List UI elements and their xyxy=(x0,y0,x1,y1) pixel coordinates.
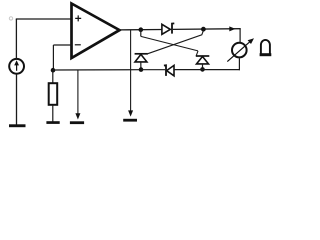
ground G1 xyxy=(9,124,26,127)
wire + input horizontal xyxy=(16,18,72,20)
wire meter bottom to bus corner xyxy=(238,58,240,70)
diagonal wire node C to D3 cathode xyxy=(148,31,204,54)
scan smudge near + input corner xyxy=(9,17,12,20)
wire from current source up to op-amp + input xyxy=(15,19,17,59)
wire top rail after D1 xyxy=(173,28,241,31)
node B (output node) xyxy=(139,27,144,32)
ground bar under arrow 1 xyxy=(70,121,84,124)
diode D2 (bottom rail, pointing left) xyxy=(164,65,174,76)
op-amp U1 xyxy=(72,4,120,59)
vertical wire from output rail down to voltage arrow (crosses bus) xyxy=(130,30,132,112)
wire - input down to node xyxy=(52,45,54,70)
current source I1 xyxy=(9,59,24,74)
current arrow on top rail xyxy=(229,26,235,31)
ground G2 xyxy=(46,121,59,124)
wire op-amp output xyxy=(119,29,163,31)
wire bottom bus middle segment xyxy=(141,69,165,71)
wire bottom bus right segment xyxy=(174,69,240,71)
ground arrow 1 (voltage arrow to ground) xyxy=(75,70,80,120)
node C (top right) xyxy=(201,27,206,32)
meter M1 (adjustable instrument) xyxy=(227,38,254,61)
wire top rail corner down to meter xyxy=(239,29,241,43)
omega symbol (meter unit) xyxy=(260,40,272,56)
diode D4 (right bottom, pointing up) xyxy=(196,56,210,69)
node D (D3 anode on bus) xyxy=(139,67,144,72)
wire - input horizontal xyxy=(53,44,72,46)
ground arrow 2 xyxy=(128,110,133,116)
diagonal wire node B to D4 cathode xyxy=(141,30,198,56)
ground bar under arrow 2 xyxy=(123,119,137,122)
node A (feedback / resistor junction) xyxy=(51,68,56,73)
diode D1 (top rail, pointing right) xyxy=(162,23,174,34)
diode D3 (left bottom, pointing up) xyxy=(135,54,148,70)
wire current source down to ground xyxy=(16,74,18,125)
wire bottom bus left segment xyxy=(53,69,141,71)
node E (D4 anode on bus) xyxy=(200,67,205,72)
resistor R1 xyxy=(49,70,58,121)
